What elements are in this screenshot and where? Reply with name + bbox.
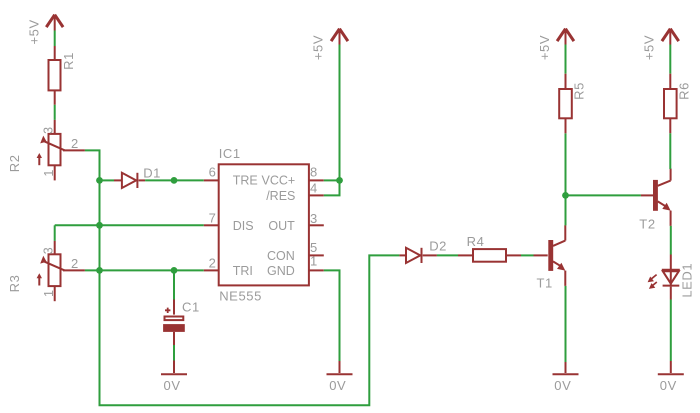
diode D1 [114, 166, 161, 189]
wire D1 to IC pin 6 [145, 179, 204, 181]
IC1 pin 2 TRI [204, 256, 219, 271]
ground 0V under C1 [161, 361, 187, 393]
IC1 pin 7 DIS [204, 211, 219, 226]
wire T1 collector junction to T2 base [566, 194, 641, 196]
wire +5V down to pin8 junction [339, 45, 341, 181]
svg-text:7: 7 [209, 211, 217, 226]
svg-text:0V: 0V [660, 378, 677, 393]
ground 0V under IC [327, 361, 353, 393]
svg-text:8: 8 [310, 164, 318, 179]
svg-text:R4: R4 [467, 234, 485, 249]
junction node B TRI row [96, 267, 103, 274]
IC1 pin 4 /RES [309, 181, 324, 196]
svg-text:3: 3 [310, 211, 318, 226]
svg-text:LED1: LED1 [679, 263, 694, 298]
svg-text:TRE: TRE [233, 174, 258, 188]
svg-text:R2: R2 [7, 154, 22, 172]
svg-text:VCC+: VCC+ [261, 174, 295, 188]
supply +5V arrow (top-left, feeds R1) [26, 15, 63, 45]
wire supply to R1 [54, 31, 56, 47]
IC1 pin 5 CON [309, 240, 324, 256]
wire main row: node B to D1 [100, 179, 115, 181]
junction node C TRI row [171, 267, 178, 274]
svg-text:IC1: IC1 [219, 146, 241, 161]
svg-text:+5V: +5V [26, 19, 41, 44]
wire feedback: node B down, along bottom, up to D2 [100, 255, 400, 405]
ground 0V under T1 [553, 362, 579, 393]
svg-text:/RES: /RES [266, 189, 295, 203]
svg-text:NE555: NE555 [219, 288, 262, 303]
wire D2 to R4 [437, 254, 458, 256]
wire DIS row corner down to R3 pin3 [54, 225, 56, 241]
svg-text:R5: R5 [572, 82, 587, 100]
IC1 pin 6 TRE [204, 165, 219, 181]
svg-text:1: 1 [310, 254, 318, 269]
svg-text:0V: 0V [554, 378, 571, 393]
svg-text:3: 3 [41, 247, 55, 255]
supply +5V arrow (above R6) [642, 29, 679, 60]
junction node B row A [96, 177, 103, 184]
IC1 pin 3 OUT [309, 211, 324, 226]
svg-text:CON: CON [267, 249, 295, 263]
svg-text:+5V: +5V [537, 35, 552, 60]
wire pin4 to junction [324, 180, 340, 195]
LED LED1 [648, 255, 695, 300]
svg-text:+5V: +5V [642, 35, 657, 60]
junction node B DIS row [96, 222, 103, 229]
svg-text:3: 3 [41, 126, 55, 134]
wire node C down to C1 [173, 270, 175, 299]
wire node B down to DIS row [99, 180, 101, 225]
resistor R5 [559, 74, 586, 134]
svg-text:1: 1 [42, 289, 56, 297]
svg-text:2: 2 [209, 256, 217, 271]
wire R4 to T1 base [521, 254, 534, 256]
svg-text:T1: T1 [537, 276, 553, 291]
svg-text:4: 4 [310, 181, 318, 196]
junction T1 collector / T2 base [562, 192, 569, 199]
wire T2 emitter to LED1 [670, 226, 672, 255]
svg-text:R1: R1 [61, 52, 76, 70]
svg-text:T2: T2 [639, 216, 655, 231]
wire R6 to T2 collector [669, 133, 671, 169]
svg-text:TRI: TRI [233, 264, 253, 278]
supply +5V arrow (above R5) [537, 29, 574, 60]
wire pin1 GND to ground [324, 270, 340, 361]
svg-text:C1: C1 [182, 300, 200, 315]
wire T1 collector up to junction and R5 [565, 133, 567, 225]
wire T1 emitter to ground [565, 286, 567, 362]
svg-text:0V: 0V [329, 378, 346, 393]
potentiometer R2 [7, 120, 85, 180]
svg-text:GND: GND [267, 264, 295, 278]
svg-text:6: 6 [209, 165, 217, 180]
wire node B down to TRI row [99, 225, 101, 270]
IC1 pin 8 VCC+ [309, 164, 324, 180]
svg-text:OUT: OUT [268, 219, 295, 233]
wire R2 wiper to node column B [85, 150, 100, 180]
diode D2 [399, 239, 447, 263]
wire pin8 to junction [324, 179, 340, 181]
junction node C row A [171, 177, 178, 184]
capacitor C1 [163, 300, 200, 346]
resistor R1 [49, 46, 76, 105]
transistor T1 [534, 225, 566, 290]
svg-text:2: 2 [71, 136, 79, 151]
resistor R6 [664, 74, 691, 134]
svg-text:D2: D2 [429, 239, 447, 254]
wire DIS row [55, 224, 204, 226]
junction pin8/pin4/+5V [336, 177, 343, 184]
svg-text:1: 1 [42, 169, 56, 177]
svg-text:D1: D1 [143, 166, 161, 181]
resistor R4 [458, 234, 521, 262]
potentiometer R3 [7, 241, 85, 301]
transistor T2 [639, 169, 670, 232]
wire C1 to ground [173, 345, 175, 361]
ground 0V under LED1 [658, 361, 684, 393]
svg-text:+5V: +5V [311, 35, 326, 60]
wire +5V to R5 [565, 45, 567, 74]
wire R1 to R2 [54, 105, 56, 120]
svg-text:0V: 0V [164, 378, 181, 393]
svg-text:R6: R6 [676, 82, 691, 100]
wire +5V to R6 [669, 45, 671, 74]
wire TRI row [85, 269, 204, 271]
IC1 NE555 body [219, 146, 309, 303]
wire LED1 to ground [670, 300, 672, 362]
supply +5V arrow (above IC) [311, 29, 348, 60]
svg-text:2: 2 [71, 256, 79, 271]
IC1 pin 1 GND [309, 254, 324, 271]
svg-text:R3: R3 [7, 275, 22, 293]
svg-text:DIS: DIS [233, 219, 254, 233]
